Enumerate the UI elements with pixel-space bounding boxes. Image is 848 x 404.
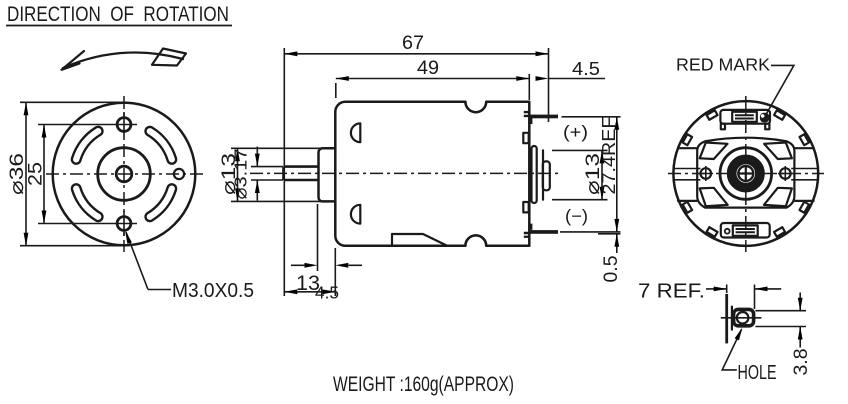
front view horizontal centerline <box>46 173 204 175</box>
top terminal slot <box>732 112 757 122</box>
bearing plate <box>697 138 794 208</box>
terminal bottom tab marks <box>524 224 533 238</box>
front bearing boss <box>319 148 336 201</box>
dimension dia13 left <box>218 148 332 201</box>
rear view outer circle <box>673 101 818 246</box>
motor can body <box>335 102 529 246</box>
dimension 4.5 top <box>536 59 606 81</box>
terminal top tab marks <box>524 111 533 124</box>
svg-text:⌀3.17: ⌀3.17 <box>231 149 251 200</box>
plate window lower-left <box>700 188 728 206</box>
bottom terminal slot <box>733 225 758 235</box>
rim notch lower-left 240 <box>707 227 718 237</box>
detail terminal base line <box>731 306 733 331</box>
dimension 0.5 <box>598 234 622 283</box>
dimension 25 (hole spacing) <box>25 125 138 224</box>
top brush housing <box>720 110 770 124</box>
plate window lower-right <box>764 188 792 206</box>
dimension dia36 <box>6 102 126 245</box>
rim notch upper-right 30 <box>799 134 809 145</box>
bottom notch arc <box>465 235 486 245</box>
screw left <box>699 166 714 181</box>
front view vent slot lower-left <box>76 189 98 217</box>
dimension dia13 right <box>552 150 608 199</box>
dimension 27.4REF <box>560 117 621 232</box>
front view vent slot upper-right <box>150 131 172 159</box>
rim notch upper-left 120 <box>707 110 718 120</box>
screw boss lines left <box>674 169 701 180</box>
dimension 3.8 <box>755 293 812 376</box>
top notch arc <box>465 102 486 112</box>
svg-text:27.4REF: 27.4REF <box>599 117 619 195</box>
D vent bottom <box>351 205 360 224</box>
dimension 67 <box>284 32 548 296</box>
rim notch lower-left 210 <box>683 202 693 213</box>
svg-text:HOLE: HOLE <box>738 362 777 384</box>
plate window upper-right <box>764 143 792 160</box>
svg-text:WEIGHT :160g(APPROX): WEIGHT :160g(APPROX) <box>333 372 514 396</box>
svg-text:DIRECTION OF ROTATION: DIRECTION OF ROTATION <box>7 2 229 26</box>
svg-text:RED MARK: RED MARK <box>676 55 770 75</box>
right wing <box>795 148 814 201</box>
svg-text:7 REF.: 7 REF. <box>638 281 705 303</box>
front view small pilot hole right <box>174 169 184 179</box>
shaft end circle with cross <box>738 166 753 181</box>
bottom brush housing <box>721 223 770 238</box>
rear view horizontal centerline <box>668 173 824 175</box>
commutator dark ring <box>732 159 760 187</box>
front view vertical centerline <box>123 96 125 252</box>
bottom housing hole <box>724 228 731 235</box>
red mark square <box>760 113 769 123</box>
dimension 4.5 bottom <box>291 204 362 303</box>
rear bearing boss <box>542 150 544 199</box>
endcap crimp hook top <box>523 133 528 143</box>
svg-text:0.5: 0.5 <box>600 255 622 282</box>
svg-text:25: 25 <box>25 162 47 186</box>
svg-text:67: 67 <box>402 32 424 54</box>
svg-text:4.5: 4.5 <box>315 283 339 303</box>
shaft <box>284 167 319 180</box>
rotation arrow arc <box>62 49 187 70</box>
title DIRECTION OF ROTATION <box>6 2 232 26</box>
leader M3.0X0.5 <box>123 230 254 302</box>
svg-text:M3.0X0.5: M3.0X0.5 <box>172 280 254 302</box>
front view vent slot upper-left <box>76 131 98 159</box>
dimension 49 <box>336 57 530 100</box>
svg-text:(−): (−) <box>565 206 588 226</box>
top housing tab right <box>765 124 769 130</box>
front view outer circle (motor face, dia 36) <box>53 103 196 246</box>
terminal top bar <box>529 115 558 119</box>
rim notch lower-right 300 <box>774 227 785 237</box>
svg-text:4.5: 4.5 <box>572 59 600 79</box>
screw right <box>778 166 793 181</box>
bearing ring outer <box>720 148 772 200</box>
endcap crimp hook bottom <box>523 202 528 212</box>
left wing <box>678 148 697 201</box>
rear brush plate <box>532 146 537 203</box>
rim notch lower-right 330 <box>799 202 809 213</box>
detail centerline <box>721 317 762 319</box>
RED MARK leader <box>766 65 794 114</box>
top housing tab left <box>721 124 725 130</box>
svg-text:49: 49 <box>417 57 439 79</box>
svg-text:3.8: 3.8 <box>790 349 812 376</box>
dimension 7 REF <box>638 281 781 310</box>
D vent top <box>351 123 360 142</box>
svg-text:(+): (+) <box>563 122 588 142</box>
rim notch upper-right 60 <box>774 110 785 120</box>
detail endcap surface line <box>725 294 728 344</box>
front view mounting hole bottom M3 <box>117 211 131 236</box>
bottom stamped tab <box>392 234 447 246</box>
HOLE leader <box>722 327 776 384</box>
rear view vertical centerline <box>745 96 747 252</box>
detail terminal body <box>734 309 754 325</box>
screw boss lines right <box>791 169 818 180</box>
side view horizontal centerline <box>250 172 560 174</box>
dimension 13 bottom <box>284 248 335 296</box>
front view mounting hole top M3 <box>117 112 131 137</box>
plate window upper-left <box>700 143 728 160</box>
front view shaft circle <box>116 166 132 182</box>
rim notch upper-left 150 <box>683 134 693 145</box>
front view bearing boss circle <box>98 148 151 201</box>
dimension dia3.17 <box>231 147 284 201</box>
front view vent slot lower-right <box>150 189 172 217</box>
detail terminal hole <box>737 312 749 324</box>
terminal bottom bar <box>529 230 558 234</box>
